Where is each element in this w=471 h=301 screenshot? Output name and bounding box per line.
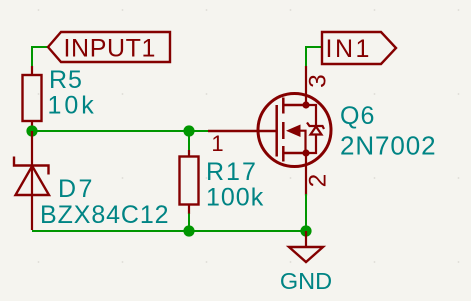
wire R17 bottom stub (188, 214, 190, 232)
transistor Q6 (208, 66, 436, 196)
wire IN1 down to Q6 drain (305, 46, 307, 67)
wire IN1 horizontal (306, 46, 322, 48)
svg-text:2N7002: 2N7002 (340, 131, 436, 161)
svg-text:2: 2 (305, 174, 332, 188)
junction node GND (300, 225, 311, 236)
svg-text:10k: 10k (48, 92, 97, 120)
wire Q6 source to GND (305, 194, 307, 231)
junction node R5/D7 (26, 125, 37, 136)
svg-text:IN1: IN1 (326, 35, 372, 63)
svg-text:INPUT1: INPUT1 (64, 35, 157, 63)
svg-text:Q6: Q6 (340, 102, 375, 130)
svg-text:D7: D7 (58, 175, 95, 203)
svg-text:100k: 100k (206, 184, 264, 212)
wire bottom horizontal (32, 230, 306, 232)
wire INPUT1 down to R5 (31, 46, 33, 67)
svg-text:3: 3 (305, 74, 332, 88)
svg-text:R5: R5 (49, 66, 83, 94)
resistor R5 (23, 66, 97, 131)
resistor R17 (180, 150, 265, 214)
wire INPUT1 horizontal (32, 46, 48, 48)
junction node R17 top (183, 125, 194, 136)
wire R17 top stub (188, 131, 190, 151)
global label INPUT1 (48, 32, 170, 63)
svg-text:GND: GND (280, 268, 332, 294)
svg-text:BZX84C12: BZX84C12 (40, 201, 170, 229)
global label IN1 (322, 32, 396, 64)
ground (280, 231, 332, 294)
svg-text:1: 1 (211, 131, 223, 156)
svg-text:R17: R17 (206, 158, 258, 186)
zener diode D7 (14, 131, 170, 230)
junction node R17 bottom (183, 225, 194, 236)
wire top horizontal (32, 130, 208, 132)
